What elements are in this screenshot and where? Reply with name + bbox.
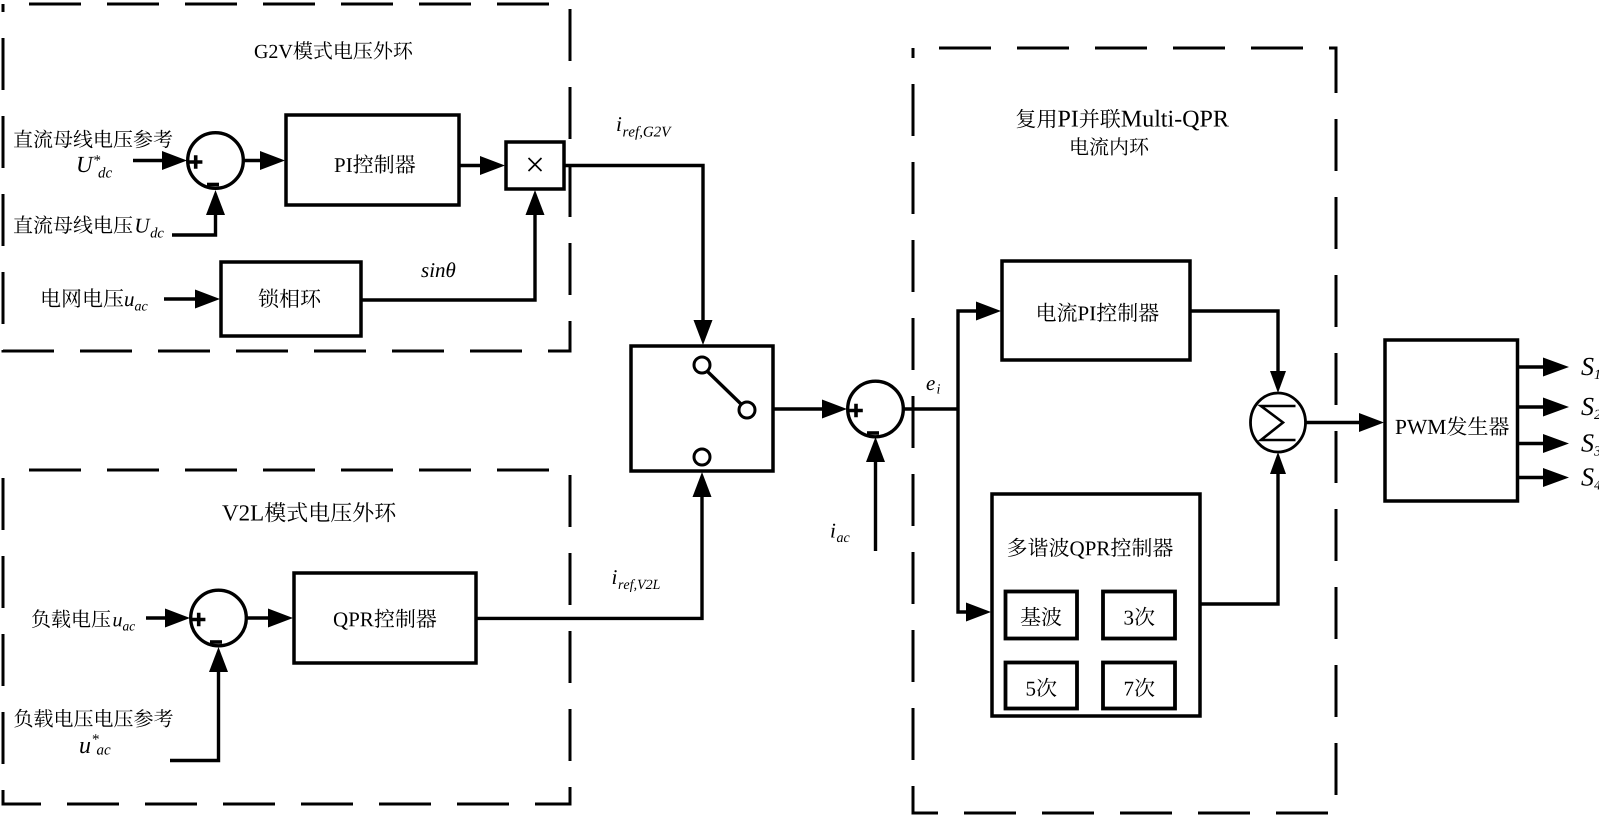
node label: 负载电压电压参考 <box>14 709 32 728</box>
label: S2 <box>1581 398 1593 416</box>
node label: 电网电压uac <box>43 288 61 307</box>
wire: Udc reference into summing junction <box>133 159 162 162</box>
wire: PWM output S1 <box>1518 365 1544 368</box>
block: PI控制器 <box>286 115 459 205</box>
mode selector switch box <box>631 346 773 471</box>
wire: PWM output S3 <box>1518 442 1544 445</box>
switch arm <box>708 372 742 405</box>
multiplier symbol <box>529 158 542 171</box>
label: iac <box>831 524 835 538</box>
label: S3 <box>1581 434 1593 452</box>
label: iref,V2L <box>613 570 617 584</box>
wire: PLL output into multiplier <box>361 215 535 300</box>
node label: u*ac <box>80 742 90 753</box>
summation node sigma <box>1251 393 1306 452</box>
wire: summing junction to PI controller <box>243 159 260 162</box>
block: 锁相环 (PLL) <box>221 262 361 336</box>
sub-block: 7次 <box>1103 663 1175 709</box>
block: 电流PI控制器 <box>1002 261 1190 360</box>
title: 电流内环 <box>1072 137 1089 155</box>
wire: PI controller output to sigma <box>1190 311 1278 371</box>
wire: iref,V2L from QPR controller to switch <box>476 497 702 618</box>
node label: 负载电压uac <box>32 609 50 628</box>
switch contact: G2V input <box>694 357 710 373</box>
sub-block: 基波 <box>1006 592 1078 639</box>
dashed box: V2L mode voltage outer loop <box>3 470 570 804</box>
dashed box: multiplexed PI parallel Multi-QPR current inner loop <box>913 48 1336 813</box>
wire: PWM output S2 <box>1518 405 1544 408</box>
summing junction: current error <box>848 381 904 437</box>
dashed box: G2V mode voltage outer loop <box>3 4 570 351</box>
sub-block: 5次 <box>1006 663 1078 709</box>
wire: PWM output S4 <box>1518 476 1544 479</box>
wire: Udc feedback into summing junction minus input <box>172 215 216 235</box>
wire: switch output to error summing junction <box>773 407 822 410</box>
label: sinθ <box>421 267 428 277</box>
switch contact: common output <box>739 402 755 418</box>
label: ei <box>927 380 935 390</box>
wire: iac feedback into summing junction <box>874 462 877 551</box>
wire: load voltage into summing junction <box>146 616 165 619</box>
wire: grid voltage into PLL <box>164 297 195 300</box>
wire: QPR output to sigma <box>1200 474 1278 604</box>
wire: error to branch node <box>903 407 958 410</box>
node label: 直流母线电压Udc <box>14 215 32 233</box>
switch contact: V2L input <box>694 449 710 465</box>
summing junction: G2V voltage error <box>188 133 244 189</box>
title: V2L模式电压外环 <box>222 505 238 520</box>
wire: branch up into current PI controller <box>958 311 976 409</box>
sigma symbol <box>1261 406 1296 440</box>
wire: sigma to PWM generator <box>1306 421 1359 424</box>
block: QPR控制器 <box>294 573 476 663</box>
wire: PI controller to multiplier <box>459 164 480 167</box>
summing junction: V2L voltage error <box>191 590 247 646</box>
sub-block: 3次 <box>1103 592 1175 639</box>
label: iref,G2V <box>617 117 621 131</box>
wire: summing junction to QPR controller <box>246 616 268 619</box>
wire: uac reference into summing junction minus input <box>170 672 219 761</box>
block: 多谐波QPR控制器 <box>992 494 1200 716</box>
block: multiplier <box>506 142 564 189</box>
wire: branch down into multi-harmonic QPR controller <box>958 409 966 612</box>
node label: U*dc <box>78 157 94 172</box>
block: PWM发生器 <box>1385 340 1518 501</box>
wire: iref,G2V from multiplier to switch <box>564 166 703 321</box>
label: S1 <box>1581 358 1593 376</box>
title: G2V模式电压外环 <box>255 45 268 58</box>
node label: 直流母线电压参考 <box>14 130 32 148</box>
label: S4 <box>1581 468 1593 486</box>
title: 复用PI并联Multi-QPR <box>1017 109 1036 128</box>
